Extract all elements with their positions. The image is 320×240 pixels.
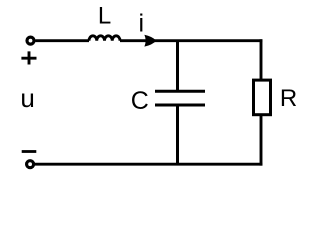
svg-text:L: L (98, 3, 111, 30)
plus sign (21, 51, 36, 64)
terminal top-left (+) (27, 37, 34, 44)
resistor R body (254, 80, 271, 115)
svg-text:C: C (131, 87, 149, 115)
svg-text:i: i (139, 10, 145, 38)
wire top: inductor to top-right corner (120, 39, 262, 42)
wire: capacitor branch upper (176, 41, 179, 92)
wire: right branch lower (260, 115, 263, 166)
wire: capacitor branch lower (176, 105, 179, 164)
current arrow i (144, 35, 156, 47)
wire top: terminal to inductor (35, 39, 89, 42)
terminal bottom-left (-) (27, 161, 34, 168)
wire bottom (35, 163, 262, 166)
capacitor C plates (155, 90, 205, 93)
svg-text:R: R (280, 85, 297, 112)
wire: right branch upper (260, 39, 263, 80)
minus sign (22, 150, 37, 153)
inductor L1 coil (89, 36, 120, 41)
svg-text:u: u (20, 83, 34, 113)
